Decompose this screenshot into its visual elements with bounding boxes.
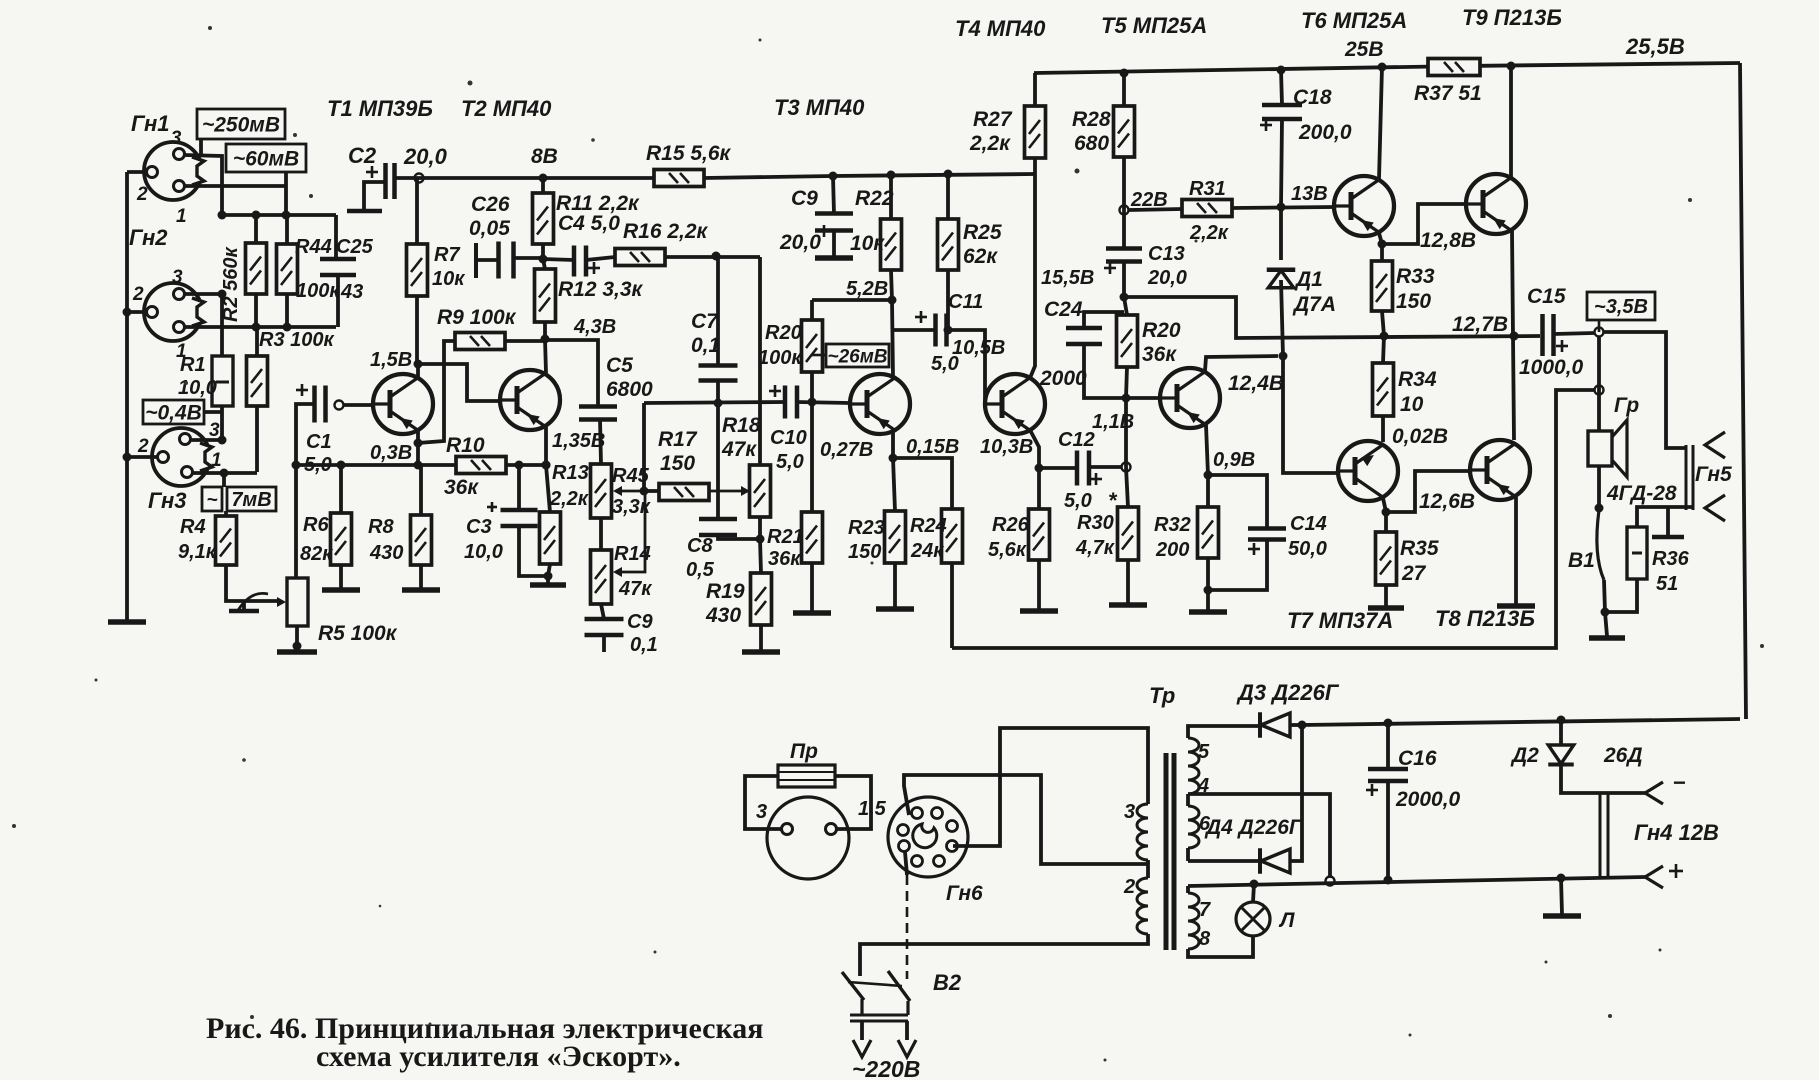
lead R28 top <box>1122 73 1126 106</box>
resistor R35 27 <box>1376 532 1397 585</box>
svg-text:430: 430 <box>705 604 741 627</box>
capacitor C9 20,0 <box>815 214 853 231</box>
capacitor C25 43 <box>320 259 356 275</box>
connector Gn5 jack bars <box>1686 445 1693 510</box>
secondary winding 6 <box>1188 794 1211 861</box>
lead C14 bottom <box>1208 539 1267 590</box>
svg-text:1: 1 <box>176 206 187 227</box>
label R10 36k <box>444 434 485 499</box>
svg-text:20,0: 20,0 <box>403 144 448 169</box>
svg-text:Гн1: Гн1 <box>131 111 169 136</box>
label Gn4 12V <box>1634 820 1719 845</box>
svg-text:C4 5,0: C4 5,0 <box>558 212 620 235</box>
svg-text:5,6к: 5,6к <box>988 539 1027 561</box>
connector Gn2 label <box>129 225 168 250</box>
wire base line y403 <box>640 398 817 496</box>
label 12,4V <box>1228 372 1284 395</box>
lamp bottom lead <box>1188 936 1253 957</box>
svg-text:3: 3 <box>172 267 183 288</box>
lead R35 bottom <box>1384 585 1388 606</box>
resistor R19 430 <box>751 573 772 625</box>
wire R16 right <box>665 252 760 261</box>
resistor R20b 36k <box>1117 315 1138 367</box>
wire Gn6 to Tr primary top <box>953 728 1148 846</box>
svg-text:7мВ: 7мВ <box>231 489 271 511</box>
lead R24 bottom to feedback rail <box>950 563 954 648</box>
svg-text:0,1: 0,1 <box>630 634 658 656</box>
svg-text:R6: R6 <box>303 514 329 536</box>
label R11 2,2k <box>556 192 640 215</box>
label 1,5V <box>370 349 412 371</box>
svg-text:100к: 100к <box>296 280 340 302</box>
transistor T2 <box>500 370 560 430</box>
lead R14 to C9b <box>601 604 604 619</box>
svg-text:Д2: Д2 <box>1510 744 1539 767</box>
speaker column <box>1597 336 1601 431</box>
transistor T8 <box>1470 440 1530 500</box>
label C25 <box>336 236 374 303</box>
transistor T5 <box>1160 368 1220 428</box>
label Tr <box>1149 683 1175 708</box>
label R27 <box>969 108 1013 155</box>
lead R8 bottom <box>419 565 423 588</box>
svg-text:7: 7 <box>1199 899 1211 921</box>
svg-text:R4: R4 <box>180 516 206 538</box>
svg-text:Т1 МП39Б: Т1 МП39Б <box>327 96 433 121</box>
label C12 <box>1058 429 1095 512</box>
svg-text:2: 2 <box>132 284 144 305</box>
label 0,15V <box>906 436 959 458</box>
connector Gn4 bars <box>1600 793 1608 877</box>
pin 3 of Gn3 <box>180 420 221 445</box>
wire T3 emitter to R24 <box>893 458 952 509</box>
capacitor C13 20,0 <box>1104 249 1142 275</box>
label R28 <box>1072 108 1111 155</box>
connector Gn3 (DIN socket) <box>152 428 218 486</box>
svg-text:51: 51 <box>1656 573 1678 595</box>
svg-text:200,0: 200,0 <box>1298 121 1352 144</box>
svg-text:Гн4 12В: Гн4 12В <box>1634 820 1719 845</box>
T3 collector lead <box>892 300 893 377</box>
resistor R22 10k <box>881 219 902 270</box>
ground C9 <box>815 256 853 258</box>
C2 minus bracket <box>364 182 385 209</box>
svg-text:*: * <box>1108 488 1118 513</box>
svg-text:C25: C25 <box>336 236 374 258</box>
R14 wiper arrow <box>613 491 645 577</box>
label 15,5V <box>1041 267 1094 289</box>
svg-text:10к: 10к <box>850 232 885 255</box>
svg-text:R5 100к: R5 100к <box>318 622 398 645</box>
label 12,8V <box>1420 229 1476 252</box>
resistor R7 10k <box>407 244 428 296</box>
svg-text:20,0: 20,0 <box>779 231 821 254</box>
svg-text:Т9 П213Б: Т9 П213Б <box>1462 5 1562 30</box>
lead D2 top <box>1559 720 1563 745</box>
wire C11 to T4 base <box>947 330 985 404</box>
label R15 5,6k <box>646 142 732 165</box>
lead R34 top <box>1383 336 1384 363</box>
diode D2 26D <box>1548 745 1574 765</box>
svg-text:Т4 МП40: Т4 МП40 <box>955 16 1046 41</box>
label R4 <box>178 516 217 563</box>
T4 emitter lead <box>1030 430 1044 473</box>
resistor R34 10 <box>1373 363 1394 416</box>
svg-text:C10: C10 <box>770 427 807 449</box>
svg-text:Т5 МП25А: Т5 МП25А <box>1101 13 1207 38</box>
lead R13 bottom <box>548 564 550 583</box>
svg-text:47к: 47к <box>618 578 652 600</box>
capacitor C14 50,0 <box>1248 529 1286 556</box>
wire R17 left <box>644 489 659 493</box>
label R31 2,2k <box>1189 178 1229 244</box>
lead R2 bottom <box>252 294 261 332</box>
secondary winding 5-4 <box>1188 738 1210 797</box>
label 3 selector <box>756 801 767 823</box>
svg-text:C13: C13 <box>1148 243 1185 265</box>
svg-text:Гн2: Гн2 <box>129 225 168 250</box>
svg-text:62к: 62к <box>963 245 998 268</box>
svg-text:82к: 82к <box>300 543 333 565</box>
label 10,3V <box>980 436 1033 458</box>
ground C3/R13 <box>530 583 566 585</box>
resistor R26 5,6k <box>1029 509 1050 560</box>
label C10 5,0 <box>770 427 807 473</box>
svg-text:0,3В: 0,3В <box>370 442 412 464</box>
label C16 2000,0 <box>1395 747 1461 811</box>
label R8 <box>368 516 403 564</box>
label R20b 36k <box>1142 319 1181 366</box>
lead C24 top <box>1084 312 1124 328</box>
wire Gn2 pin1 bottom node <box>184 325 336 329</box>
label R6 <box>300 514 333 565</box>
label 4,3V <box>573 316 616 338</box>
T7 emitter lead <box>1382 498 1391 517</box>
lead from callout ~250mV <box>199 139 203 156</box>
right border wire <box>1740 63 1746 719</box>
transistor T1 <box>373 374 433 434</box>
label 12,7V <box>1452 313 1508 336</box>
label R24 24k <box>910 515 947 562</box>
label 13V <box>1291 183 1328 205</box>
lead R34 bottom <box>1381 416 1385 442</box>
ground D2 node <box>1543 878 1581 916</box>
resistor R24 24k <box>942 509 963 563</box>
capacitor C12 5,0 <box>1077 451 1102 486</box>
svg-text:R19: R19 <box>706 580 745 603</box>
label C3 10,0 <box>464 516 503 563</box>
label T3 MP40 <box>774 95 865 120</box>
left border wire <box>125 172 129 620</box>
lead R6 top <box>339 465 343 513</box>
lead R25 top <box>946 174 950 219</box>
label Gn6 <box>946 882 983 905</box>
wire R31 to 13V <box>1232 203 1334 212</box>
svg-text:R24: R24 <box>910 515 947 537</box>
transistor T9 <box>1466 174 1526 234</box>
svg-text:R13: R13 <box>552 462 589 484</box>
lead R23 bottom <box>893 563 897 607</box>
svg-text:C3: C3 <box>466 516 492 538</box>
svg-text:12,6В: 12,6В <box>1419 490 1475 513</box>
svg-text:C5: C5 <box>606 354 633 377</box>
capacitor C18 200,0 <box>1260 105 1302 131</box>
resistor R31 2,2k <box>1182 200 1232 217</box>
svg-text:25В: 25В <box>1344 38 1384 61</box>
wire C15 right node <box>1554 328 1604 337</box>
label R9 100k <box>437 306 517 329</box>
wire C13 node to rail <box>1124 297 1540 341</box>
svg-text:4,3В: 4,3В <box>573 316 616 338</box>
lead R19 bottom <box>759 625 763 650</box>
svg-text:27: 27 <box>1401 562 1427 585</box>
svg-text:C9: C9 <box>627 611 653 633</box>
svg-text:680: 680 <box>1074 132 1109 155</box>
lead R21 bottom <box>810 563 814 611</box>
capacitor C10 5,0 <box>769 385 797 419</box>
wire Gn5 lower to R36 <box>1637 507 1693 527</box>
svg-text:9,1к: 9,1к <box>178 541 217 563</box>
lead R21 top <box>810 402 814 512</box>
svg-text:R23: R23 <box>848 517 885 539</box>
svg-text:1000,0: 1000,0 <box>1519 356 1584 379</box>
lead R32 top <box>1206 475 1210 507</box>
coupling T1 collector to T2 base <box>418 364 502 401</box>
ground left border <box>108 620 146 622</box>
svg-text:36к: 36к <box>1142 343 1177 366</box>
svg-text:1,5В: 1,5В <box>370 349 412 371</box>
wire R9 right <box>505 335 550 344</box>
T1 collector node <box>414 360 423 369</box>
lead R33 bottom <box>1382 311 1384 336</box>
label R36 51 <box>1652 548 1690 595</box>
label 0,27V <box>820 439 873 461</box>
svg-text:12,4В: 12,4В <box>1228 372 1284 395</box>
svg-text:10к: 10к <box>432 268 465 290</box>
wire fuse left <box>745 776 782 829</box>
label R14 <box>614 543 652 600</box>
label T7 MP37A <box>1287 608 1393 633</box>
svg-text:R27: R27 <box>973 108 1013 131</box>
capacitor C3 10,0 <box>487 502 538 526</box>
svg-text:5: 5 <box>1198 741 1210 763</box>
label R34 10 <box>1398 368 1437 416</box>
svg-text:Т7 МП37А: Т7 МП37А <box>1287 608 1393 633</box>
ground R23 <box>876 607 914 609</box>
svg-text:R20: R20 <box>765 322 802 344</box>
wire D1 node to T7 base <box>1283 356 1338 473</box>
label D4 D226G <box>1204 816 1303 839</box>
svg-text:3: 3 <box>756 801 767 823</box>
resistor R23 150 <box>885 511 906 563</box>
ground bar C2 <box>347 209 382 214</box>
svg-text:R7: R7 <box>434 244 460 266</box>
resistor R12 3,3k <box>535 269 556 322</box>
lead R20b top <box>1124 297 1127 315</box>
svg-text:~60мВ: ~60мВ <box>233 148 299 171</box>
pin 3 of Gn2 <box>172 267 185 300</box>
wire T7e to T8 base <box>1386 471 1470 512</box>
primary winding 3 <box>1124 801 1148 878</box>
diode D3 D226G <box>1260 712 1290 738</box>
label R26 <box>988 514 1030 561</box>
callout ~ 7mV <box>202 487 276 511</box>
svg-text:150: 150 <box>848 541 881 563</box>
svg-text:R9 100к: R9 100к <box>437 306 517 329</box>
wire C2 to R15 <box>396 174 654 183</box>
svg-text:R31: R31 <box>1189 178 1226 200</box>
svg-text:Л: Л <box>1278 909 1295 932</box>
selector pin right <box>826 824 837 835</box>
svg-text:C9: C9 <box>791 187 818 210</box>
lead C3 bottom <box>519 526 553 581</box>
lead from callout ~60mV <box>284 172 288 215</box>
lead R33 top <box>1380 244 1384 261</box>
svg-text:Д4 Д226Г: Д4 Д226Г <box>1204 816 1303 839</box>
svg-text:Д7А: Д7А <box>1292 293 1336 316</box>
label R18 47k <box>721 414 761 461</box>
svg-text:25,5В: 25,5В <box>1625 34 1685 59</box>
lamp top lead <box>1253 884 1254 902</box>
svg-text:Т3 МП40: Т3 МП40 <box>774 95 865 120</box>
lead R20a bottom <box>810 372 814 402</box>
lead R18 bottom <box>756 517 765 544</box>
svg-text:5,0: 5,0 <box>1064 490 1092 512</box>
svg-text:Т2 МП40: Т2 МП40 <box>461 96 552 121</box>
resistor R6 82k <box>331 513 352 565</box>
label R7 <box>432 244 465 290</box>
wire T5e to C14 <box>1208 475 1267 529</box>
wire R15 to T4 area <box>704 170 1034 181</box>
svg-text:В2: В2 <box>933 970 962 995</box>
svg-text:R25: R25 <box>963 221 1002 244</box>
capacitor C15 1000,0 <box>1543 314 1569 356</box>
svg-text:1,1В: 1,1В <box>1092 411 1134 433</box>
wire T3 coll to C11 <box>893 328 935 332</box>
label B1 <box>1568 549 1595 572</box>
svg-text:12,7В: 12,7В <box>1452 313 1508 336</box>
mains lead right <box>898 1021 916 1057</box>
svg-text:Гн6: Гн6 <box>946 882 983 905</box>
svg-text:C18: C18 <box>1293 86 1332 109</box>
resistor R18 47k (trimmer) <box>750 465 771 517</box>
resistor R21 36k <box>802 512 823 563</box>
mains lead left <box>853 1021 871 1057</box>
lead callout 3,5V <box>1598 320 1601 332</box>
svg-text:R8: R8 <box>368 516 394 538</box>
lead C7-C8 <box>716 403 720 519</box>
T4 collector lead <box>1030 174 1035 378</box>
speaker Gr (4GD-28) <box>1588 420 1627 477</box>
svg-text:R26: R26 <box>992 514 1030 536</box>
svg-text:0,15В: 0,15В <box>906 436 959 458</box>
ground R35 <box>1368 606 1404 608</box>
svg-text:47к: 47к <box>721 438 757 461</box>
resistor R32 200 <box>1198 507 1219 558</box>
lead R44 bottom <box>283 294 292 332</box>
lead R8 top <box>419 465 423 515</box>
wire D4 up to minus rail <box>1290 725 1302 861</box>
svg-text:C8: C8 <box>687 535 713 557</box>
label C1 <box>304 431 332 476</box>
svg-text:~0,4В: ~0,4В <box>145 402 202 425</box>
svg-text:0,02В: 0,02В <box>1392 425 1448 448</box>
lead R26 bottom <box>1037 560 1041 609</box>
resistor R2 560k <box>220 243 267 322</box>
transistor T3 <box>850 374 910 434</box>
label R35 27 <box>1400 537 1439 585</box>
svg-text:13В: 13В <box>1291 183 1328 205</box>
label T8 P213B <box>1435 606 1535 631</box>
svg-text:10,0: 10,0 <box>178 377 217 399</box>
wire C10 to T3 base <box>797 402 850 403</box>
svg-text:0,5: 0,5 <box>686 559 715 581</box>
Gn5 lower plug <box>1705 495 1725 521</box>
wire winding5 to D3 <box>1188 726 1259 738</box>
lead C13 top <box>1122 210 1126 248</box>
plus rail <box>1188 874 1645 889</box>
lead C7 bottom <box>716 381 720 403</box>
svg-text:R18: R18 <box>722 414 761 437</box>
label ~220V <box>852 1056 920 1080</box>
transistor T4 <box>985 374 1045 434</box>
label R33 150 <box>1396 265 1435 313</box>
lead R45-R14 <box>599 518 603 550</box>
wire Gn1 pin2 to left border <box>127 170 147 174</box>
capacitor C24 2000 <box>1066 328 1102 344</box>
svg-text:Т6 МП25А: Т6 МП25А <box>1301 8 1407 33</box>
wiper arc <box>237 593 268 612</box>
T8 emitter lead <box>1514 497 1518 604</box>
label R45 <box>612 465 651 518</box>
label R20a 100k <box>758 322 802 369</box>
lead R2 top <box>254 215 258 243</box>
wire T2coll node to C5 <box>545 340 598 407</box>
wire winding6 to D4 <box>1188 859 1259 863</box>
svg-text:R12 3,3к: R12 3,3к <box>558 278 644 301</box>
svg-text:8В: 8В <box>531 145 558 168</box>
pin 2 of Gn1 <box>136 167 158 206</box>
switch B1 <box>1597 510 1604 580</box>
transistor T7 (npn) <box>1338 441 1398 501</box>
capacitor C7 0,1 <box>699 366 738 381</box>
pin 2 of Gn3 <box>137 436 169 463</box>
resistor R45 3,3k <box>591 464 612 518</box>
label R30 4,7k <box>1075 488 1118 559</box>
lead C7 top <box>716 256 720 366</box>
label C13 20,0 <box>1147 243 1187 289</box>
label T6 MP25A <box>1301 8 1407 61</box>
label R16 2,2k <box>623 220 709 243</box>
label R3 100k <box>259 329 334 351</box>
lead R4 bottom / wiper wire to R5 <box>226 565 278 601</box>
label R17 150 <box>658 428 698 475</box>
label T9 P213B <box>1462 5 1562 30</box>
callout ~60mV <box>226 144 306 172</box>
resistor R14 47k <box>591 550 612 604</box>
T9 emitter / T8 collector column <box>1510 231 1519 440</box>
svg-text:24к: 24к <box>910 540 944 562</box>
pin 1 of Gn3 <box>182 450 222 478</box>
lead C3 top <box>517 465 521 510</box>
label 0,3V <box>370 442 412 464</box>
svg-text:26Д: 26Д <box>1603 744 1643 767</box>
svg-text:43: 43 <box>340 281 363 303</box>
resistor R36 51 <box>1627 527 1647 579</box>
svg-text:1,35В: 1,35В <box>552 430 605 452</box>
plus C1 <box>296 384 308 396</box>
label 0,9V <box>1213 449 1255 471</box>
